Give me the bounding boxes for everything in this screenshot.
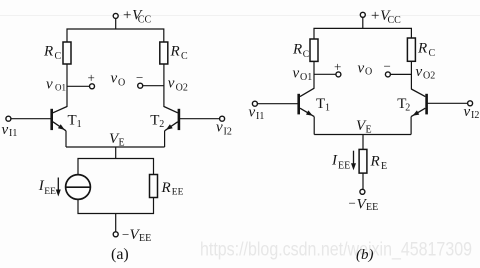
- svg-text:I2: I2: [224, 126, 232, 137]
- wire collector riser right (a): [163, 64, 165, 107]
- terminal vI1 (a): [2, 116, 18, 139]
- svg-text:v: v: [416, 64, 423, 80]
- wire VE stub down (a): [115, 147, 117, 159]
- transistor T2 (b): [397, 89, 426, 117]
- resistor RC right (b): [407, 38, 435, 61]
- svg-text:I1: I1: [256, 111, 264, 122]
- wire RE down (b): [362, 173, 364, 189]
- transistor T1 (b): [299, 88, 330, 116]
- transistor T1 (a): [52, 107, 82, 131]
- current source IEE (a): [66, 175, 91, 200]
- caption (b): [356, 247, 374, 263]
- label IEE with arrow (a): [38, 178, 61, 197]
- svg-text:v: v: [2, 122, 9, 138]
- wire collector riser right (b): [410, 61, 412, 89]
- svg-text:+: +: [334, 59, 341, 74]
- wire VE rail (b): [314, 118, 411, 136]
- svg-text:E: E: [119, 137, 125, 148]
- terminal vI1 (b): [249, 101, 265, 122]
- svg-text:v: v: [111, 70, 118, 86]
- terminal vI2 (b): [464, 101, 480, 121]
- svg-text:EE: EE: [44, 187, 56, 197]
- wire VEE stub (a): [115, 214, 117, 232]
- svg-text:EE: EE: [338, 161, 350, 172]
- resistor RC right (a): [160, 42, 188, 64]
- wire collector riser left (b): [313, 61, 315, 88]
- svg-text:O: O: [118, 77, 125, 88]
- svg-text:C: C: [429, 48, 436, 59]
- wire base T1 (a): [11, 118, 52, 120]
- svg-text:2: 2: [405, 103, 410, 114]
- wire top rail (b): [314, 28, 411, 39]
- node vO1 (a): [46, 70, 95, 93]
- svg-text:v: v: [293, 65, 300, 81]
- svg-text:T: T: [316, 96, 325, 112]
- svg-text:C: C: [55, 51, 62, 62]
- svg-text:E: E: [381, 161, 387, 172]
- wire collector riser left (a): [66, 64, 68, 107]
- svg-text:v: v: [46, 76, 53, 92]
- wire emitter T1 down (a): [65, 131, 67, 147]
- svg-text:−: −: [136, 70, 143, 85]
- svg-text:R: R: [292, 42, 302, 58]
- svg-text:C: C: [181, 51, 188, 62]
- wire bottom rail (a): [78, 198, 154, 214]
- resistor REE (a): [150, 175, 184, 198]
- svg-text:R: R: [43, 44, 53, 60]
- svg-text:R: R: [170, 44, 180, 60]
- label vO (b): [358, 60, 373, 77]
- wire VE rail (a): [66, 131, 165, 148]
- svg-text:v: v: [216, 120, 223, 136]
- svg-text:T: T: [150, 113, 159, 129]
- svg-text:I: I: [331, 153, 338, 169]
- svg-text:EE: EE: [172, 188, 184, 198]
- svg-text:−: −: [122, 227, 129, 242]
- node vO1 (b): [293, 59, 342, 83]
- wire emitter T2 down (a): [164, 131, 166, 147]
- svg-text:1: 1: [325, 103, 330, 114]
- wire emitter T1 down (b): [313, 117, 315, 135]
- wire base T2 (b): [427, 102, 468, 104]
- svg-text:(b): (b): [356, 247, 374, 263]
- svg-text:CC: CC: [388, 15, 402, 26]
- resistor RC left (a): [43, 42, 71, 64]
- svg-text:R: R: [370, 154, 380, 170]
- svg-text:E: E: [366, 124, 372, 135]
- svg-text:O2: O2: [423, 71, 435, 82]
- svg-text:I1: I1: [9, 128, 17, 139]
- svg-text:(a): (a): [111, 246, 129, 263]
- svg-text:O1: O1: [300, 72, 312, 83]
- terminal +VCC (a): [113, 8, 151, 26]
- terminal -VEE (b): [349, 189, 379, 213]
- svg-text:+: +: [88, 70, 95, 85]
- wire VCC stub (a): [115, 19, 117, 29]
- wire base T1 (b): [257, 103, 298, 105]
- svg-text:v: v: [168, 75, 175, 91]
- terminal vI2 (a): [216, 116, 232, 137]
- svg-text:−: −: [384, 59, 391, 74]
- svg-text:R: R: [417, 41, 427, 57]
- svg-text:T: T: [68, 113, 77, 129]
- svg-text:EE: EE: [366, 202, 378, 213]
- label vO (a): [111, 70, 126, 88]
- svg-text:R: R: [161, 180, 171, 196]
- svg-text:v: v: [464, 104, 471, 120]
- wire VCC stub (b): [362, 18, 364, 29]
- svg-text:2: 2: [159, 119, 164, 130]
- svg-text:O1: O1: [55, 83, 66, 93]
- terminal -VEE (a): [113, 227, 151, 244]
- svg-text:1: 1: [77, 119, 82, 130]
- svg-text:I2: I2: [471, 110, 479, 121]
- resistor RC left (b): [292, 39, 318, 61]
- svg-text:https://blog.csdn.net/weixin_4: https://blog.csdn.net/weixin_45817309: [200, 238, 472, 260]
- svg-text:C: C: [303, 50, 309, 60]
- svg-text:CC: CC: [138, 15, 152, 26]
- wire upper rail source (a): [78, 159, 154, 175]
- svg-text:O: O: [365, 67, 372, 78]
- svg-text:v: v: [249, 105, 256, 121]
- label IEE with arrow (b): [331, 151, 356, 172]
- svg-text:−: −: [349, 196, 356, 211]
- svg-text:O2: O2: [176, 82, 188, 93]
- scan artifact band: [0, 15, 480, 17]
- transistor T2 (a): [150, 107, 179, 131]
- wire base T2 (a): [179, 118, 220, 120]
- wire top rail (a): [67, 29, 164, 42]
- svg-text:v: v: [358, 60, 365, 76]
- watermark: [200, 238, 472, 260]
- node vO2 (a): [136, 70, 188, 93]
- caption (a): [111, 246, 129, 263]
- wire emitter T2 down (b): [410, 117, 412, 135]
- resistor RE (b): [359, 149, 387, 173]
- node vO2 (b): [384, 59, 436, 82]
- svg-text:EE: EE: [139, 233, 151, 244]
- terminal +VCC (b): [360, 8, 401, 26]
- wire VE stub down (b): [362, 135, 364, 150]
